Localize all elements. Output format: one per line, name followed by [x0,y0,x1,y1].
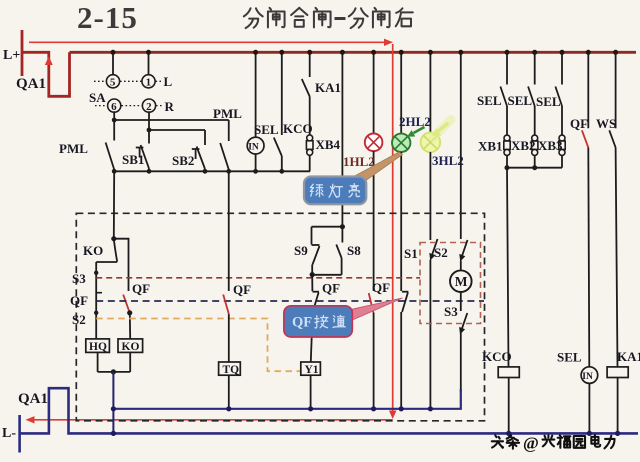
contact S3 (motor branch, arrow blade) [459,313,467,335]
dashed linkage S3 (brown) [96,277,420,279]
svg-text:SA: SA [89,90,106,105]
indicator SEL (IN) right [581,367,598,384]
svg-text:XB3: XB3 [538,138,563,153]
lamp branch 3HL2 wire [429,52,431,132]
contact S2 (motor branch, arrow blade) [459,240,467,262]
lamp 2HL2 (green, lit) [392,134,410,152]
current-flow thin red line (top) [29,41,385,43]
svg-text:5: 5 [110,77,116,89]
wire drop to KCO coil [507,168,509,367]
green arrow pointing to 2HL2 [407,127,425,137]
breaker QA1 notch (negative side) + bus L- main [20,388,638,433]
SA dotted linkages [94,81,162,105]
svg-text:SEL: SEL [508,93,533,108]
svg-text:QF: QF [233,282,251,297]
wire rail y120 to PML2 [114,119,229,121]
svg-text:2: 2 [146,101,152,113]
breaker QA1 notch (positive side) [22,52,70,96]
svg-text:TQ: TQ [223,364,240,376]
node A (KO top) [111,236,116,241]
connector XB2 [532,135,538,155]
svg-text:S2: S2 [434,245,448,260]
wire L to QF branch [114,239,129,291]
current-flow bottom red line [28,419,393,421]
svg-text:S2: S2 [72,312,86,327]
contact QF (right, red blade) [582,52,589,367]
motor branch wire [460,52,462,239]
wire S9/S8 branch from bus [341,52,343,226]
lamp 1HL2 [365,134,383,152]
wire SB2/PML2 drop to QF [228,171,230,291]
indicator IN circle [247,137,264,154]
nodes on lower blue bus [111,431,620,436]
svg-text:KCO: KCO [283,121,313,136]
svg-text:KA1: KA1 [617,349,640,364]
svg-text:QF: QF [70,293,88,308]
svg-text:KA1: KA1 [315,80,341,95]
svg-text:PML: PML [59,141,88,156]
svg-text:QF: QF [372,280,390,295]
wire S2 to M [460,261,462,271]
wire KO bottom [129,352,131,372]
bus L+ main (dark red) [70,51,637,54]
big dashed enclosure [76,213,484,420]
svg-text:QF: QF [132,281,150,296]
wire contact2 to node [148,111,150,130]
node S9/S8 top [340,224,345,229]
svg-text:SB2: SB2 [172,153,194,168]
contact S3 (tiny) [94,271,98,275]
wire L+ lead-in (red) [21,30,24,76]
svg-text:SEL: SEL [536,94,561,109]
svg-text:S1: S1 [404,246,418,261]
svg-text:QA1: QA1 [18,391,48,407]
coil HQ [86,339,110,353]
wire merge bar [98,371,131,373]
wire 3HL2 to bus [429,260,431,409]
svg-text:WS: WS [596,116,616,131]
lamp 3HL2 (yellow) [421,133,441,153]
svg-text:XB2: XB2 [511,138,536,153]
node merge [111,369,116,374]
wire to QF (Y1 branch) [311,275,313,292]
connector XB4 [306,135,313,155]
contact QF (tiny tick) [96,292,102,294]
svg-text:PML: PML [213,106,242,121]
contact S9 [312,227,320,275]
wire HQ branch (S3/QF/S2 series) [95,262,97,339]
svg-text:1: 1 [146,77,152,89]
wire S3 down [460,333,462,392]
svg-text:QA1: QA1 [16,76,46,92]
contact S2 (tiny) [94,311,98,315]
wire QF to TQ [228,314,230,362]
svg-text:S3: S3 [444,304,458,319]
contact PML (right) [220,120,229,171]
right section: SEL contact 3 [555,52,562,135]
svg-text:L: L [164,74,173,89]
svg-text:QF: QF [292,315,312,331]
connector XB3 [559,135,565,155]
node QF bottom [127,310,132,315]
svg-text:R: R [165,99,175,114]
wire SB1/PML drop into box [113,171,115,238]
right section: SEL contact 1 [500,52,507,135]
wire bottom rail y171 [114,170,310,172]
svg-text:XB4: XB4 [316,137,341,152]
SA contact 1 [142,75,155,88]
contact KCO [274,52,282,171]
contact KO [114,239,117,262]
contact S1 (3HL2 branch, arrow blade) [429,239,437,261]
wire M to S3 [460,292,462,311]
bus inner (blue, upper) [113,389,460,409]
pushbutton SB2 [192,130,205,171]
wire bar under KO [96,261,117,263]
bus junction dots [111,50,619,55]
svg-text:SEL: SEL [254,122,279,137]
svg-text:S3: S3 [72,271,86,286]
motor M [450,270,472,292]
contact QF (1HL2 branch, red blade) [369,293,374,313]
wire KCO bottom [508,378,510,434]
wire to contact 1 [148,52,150,75]
wire L- lead (blue) [18,415,21,453]
lamp branch 1HL2 wire [373,52,375,133]
coil KA1 [607,367,628,378]
wire 2HL2 to bus [400,312,402,409]
wire QF to Y1 [311,312,313,362]
title 分闸合闸-分闸后 [244,8,331,28]
contact PML (left) [106,120,115,171]
svg-text:SEL: SEL [477,93,502,108]
svg-text:S8: S8 [347,243,361,258]
svg-text:S9: S9 [294,243,308,258]
contact S8 [336,227,342,275]
svg-text:L+: L+ [3,48,20,63]
svg-text:QF: QF [570,116,588,131]
svg-text:2HL2: 2HL2 [399,114,431,129]
svg-text:SEL: SEL [557,350,582,365]
lamp SEL (IN) branch [255,52,257,137]
svg-text:KO: KO [83,243,103,258]
wire to contact 5 [112,52,114,75]
connector XB1 [504,135,510,155]
wire IN bottom [588,383,590,433]
current-flow arrowhead down [389,411,397,420]
contact KA1 [302,52,310,135]
contact QF (2HL2 branch) [402,292,409,312]
coil Y1 [301,362,321,375]
svg-text:2-15: 2-15 [77,0,138,35]
svg-text:XB1: XB1 [478,139,503,154]
current-flow arrowhead up on QA1 [45,56,53,65]
svg-text:6: 6 [111,101,117,113]
wire 1HL2 to bus [373,313,375,409]
yellow arrow pointing to 3HL2 [432,120,451,138]
coil KCO [498,367,519,378]
SA contact 5 [106,75,119,88]
current-flow vertical red line [392,44,394,411]
dashed linkage S2 (orange) [96,319,300,372]
node under contact 6 [112,118,117,123]
svg-text:IN: IN [582,372,593,382]
wire top bar [312,226,343,228]
nodes on upper blue bus [111,406,433,411]
sub dashed box (motor unit) [420,243,481,324]
current-flow arrowhead right [384,39,393,46]
coil TQ [219,362,241,375]
coil KO [118,339,143,353]
wire QF to KO coil [129,313,131,339]
wire bottom bar S9/S8 [312,274,341,276]
watermark 头条 @兴福园电力 [492,435,519,448]
svg-text:Y1: Y1 [305,364,319,376]
svg-text:KCO: KCO [482,349,512,364]
right section: SEL contact 2 [528,52,535,135]
svg-text:KO: KO [122,341,140,353]
wire drop to buses [112,372,114,434]
SA contact 2 [142,99,155,112]
svg-text:IN: IN [248,143,259,153]
node S9/S8 bottom [310,272,315,277]
wire TQ bottom [228,375,230,409]
wire rail y130 to SB2 [149,129,205,131]
contact QF (KO coil branch, red blade) [123,295,129,313]
wire contact6 to node [113,111,115,120]
svg-text:1HL2: 1HL2 [343,154,375,169]
svg-text:SB1: SB1 [122,152,144,167]
wire XB merge bar [507,167,562,169]
contact QF (Y1 branch) [313,292,320,312]
svg-text:@: @ [523,434,539,453]
node under contact 2 [147,128,152,133]
pushbutton SB1 [136,130,149,171]
wire HQ bottom [97,352,99,372]
tooltip QF接通 [284,298,403,337]
tooltip 绿灯亮 [304,152,403,204]
selector switch SA [89,52,175,114]
wire Y1 bottom [310,375,312,409]
svg-text:QF: QF [322,281,340,296]
svg-text:M: M [455,274,468,289]
SA contact 6 [108,99,121,112]
lamp branch 2HL2 wire [400,52,402,134]
junction nodes on rail [112,169,117,174]
svg-text:L-: L- [2,426,16,441]
svg-text:3HL2: 3HL2 [432,153,464,168]
svg-text:HQ: HQ [89,341,107,353]
contact QF (TQ branch, red blade) [223,295,229,315]
current-flow arrowhead left [26,416,35,423]
wire KA1 bottom [617,378,619,434]
dashed linkage QF (dark) [96,300,484,302]
contact WS [609,52,617,367]
